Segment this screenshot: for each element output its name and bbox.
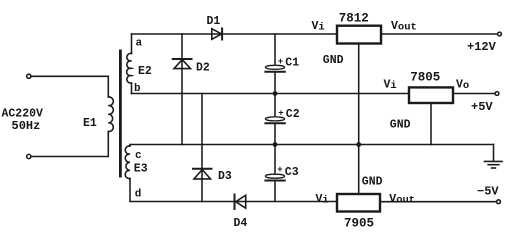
junction dot rail3/C column xyxy=(273,142,278,147)
AC input terminal bottom xyxy=(27,154,31,158)
svg-text:Vi: Vi xyxy=(316,193,329,207)
svg-text:−5V: −5V xyxy=(477,185,499,199)
regulator U1 7812 box xyxy=(337,26,381,44)
svg-text:a: a xyxy=(136,37,143,49)
svg-text:D3: D3 xyxy=(218,170,232,183)
svg-text:Vi: Vi xyxy=(384,79,397,93)
regulator U3 7905 box xyxy=(337,194,380,212)
diode D3 xyxy=(193,169,212,179)
wire rail3 c to ground xyxy=(131,144,494,146)
svg-text:+5V: +5V xyxy=(471,100,493,114)
svg-text:E1: E1 xyxy=(83,117,97,130)
diode D3 branch wire xyxy=(201,94,203,202)
wire rail3 down to 7905 GND xyxy=(358,145,360,195)
svg-text:GND: GND xyxy=(362,176,383,189)
svg-text:C2: C2 xyxy=(286,108,300,121)
AC input terminal top xyxy=(27,74,31,78)
svg-text:Vo: Vo xyxy=(456,79,469,93)
wire AC top to E1 xyxy=(31,76,108,97)
diode D2 xyxy=(173,59,192,69)
svg-text:+12V: +12V xyxy=(467,40,497,54)
svg-text:b: b xyxy=(134,83,141,95)
diode D4 xyxy=(235,195,246,210)
svg-text:GND: GND xyxy=(390,119,411,132)
svg-text:GND: GND xyxy=(323,54,344,67)
svg-text:7805: 7805 xyxy=(410,70,440,84)
svg-text:D2: D2 xyxy=(196,61,210,74)
wire 7812 GND down to rail3 xyxy=(358,44,360,145)
svg-text:C1: C1 xyxy=(285,57,299,70)
svg-text:+: + xyxy=(278,57,283,67)
ground xyxy=(485,161,503,168)
capacitor C1 lead xyxy=(274,34,276,65)
svg-text:7905: 7905 xyxy=(344,216,374,230)
wire 7812 output to +12V xyxy=(381,33,498,35)
transformer core xyxy=(119,50,122,178)
svg-text:D4: D4 xyxy=(234,217,248,230)
winding E2 xyxy=(127,53,132,83)
svg-text:c: c xyxy=(135,150,142,162)
svg-text:D1: D1 xyxy=(207,15,221,28)
+12V terminal xyxy=(498,32,502,36)
capacitor C3 lead xyxy=(274,145,276,175)
svg-text:+: + xyxy=(277,165,282,175)
svg-text:7812: 7812 xyxy=(339,12,369,26)
svg-text:d: d xyxy=(135,189,142,201)
svg-text:E2: E2 xyxy=(138,65,152,78)
capacitor C2 xyxy=(265,117,284,121)
svg-text:Vout: Vout xyxy=(389,193,415,207)
junction dot rail2/C column xyxy=(273,91,278,96)
winding E3 xyxy=(125,146,130,179)
wire rail2 b to 7805 xyxy=(132,93,410,95)
node c lead xyxy=(129,145,131,147)
capacitor C1 xyxy=(265,65,284,69)
node b lead xyxy=(131,83,133,94)
svg-text:C3: C3 xyxy=(285,166,299,179)
diode D1 xyxy=(212,29,222,40)
node d lead xyxy=(129,179,131,202)
+5V terminal xyxy=(495,92,499,96)
capacitor C2 lead xyxy=(274,94,276,117)
capacitor C3 xyxy=(265,174,284,178)
svg-text:50Hz: 50Hz xyxy=(12,119,41,133)
diode D2 branch wire xyxy=(181,34,183,145)
wire rail4 d to 7905 xyxy=(131,201,337,203)
node a lead xyxy=(131,34,133,54)
wire 7905 output to -5V xyxy=(380,201,497,203)
wire 7805 output to +5V xyxy=(453,93,495,95)
wire 7805 GND down to rail3 xyxy=(430,103,432,145)
svg-text:Vout: Vout xyxy=(391,20,417,34)
wire rail3 to ground symbol xyxy=(493,145,495,162)
svg-text:+: + xyxy=(278,108,283,118)
wire AC bottom to E1 xyxy=(31,132,108,157)
svg-text:Vi: Vi xyxy=(312,20,325,34)
winding E1 (primary) xyxy=(108,97,113,132)
wire rail1 a to 7812 xyxy=(132,33,338,35)
svg-text:E3: E3 xyxy=(134,163,148,176)
regulator U2 7805 box xyxy=(409,87,453,103)
-5V terminal xyxy=(497,200,501,204)
junction dot GND line/rail3 xyxy=(356,142,361,147)
